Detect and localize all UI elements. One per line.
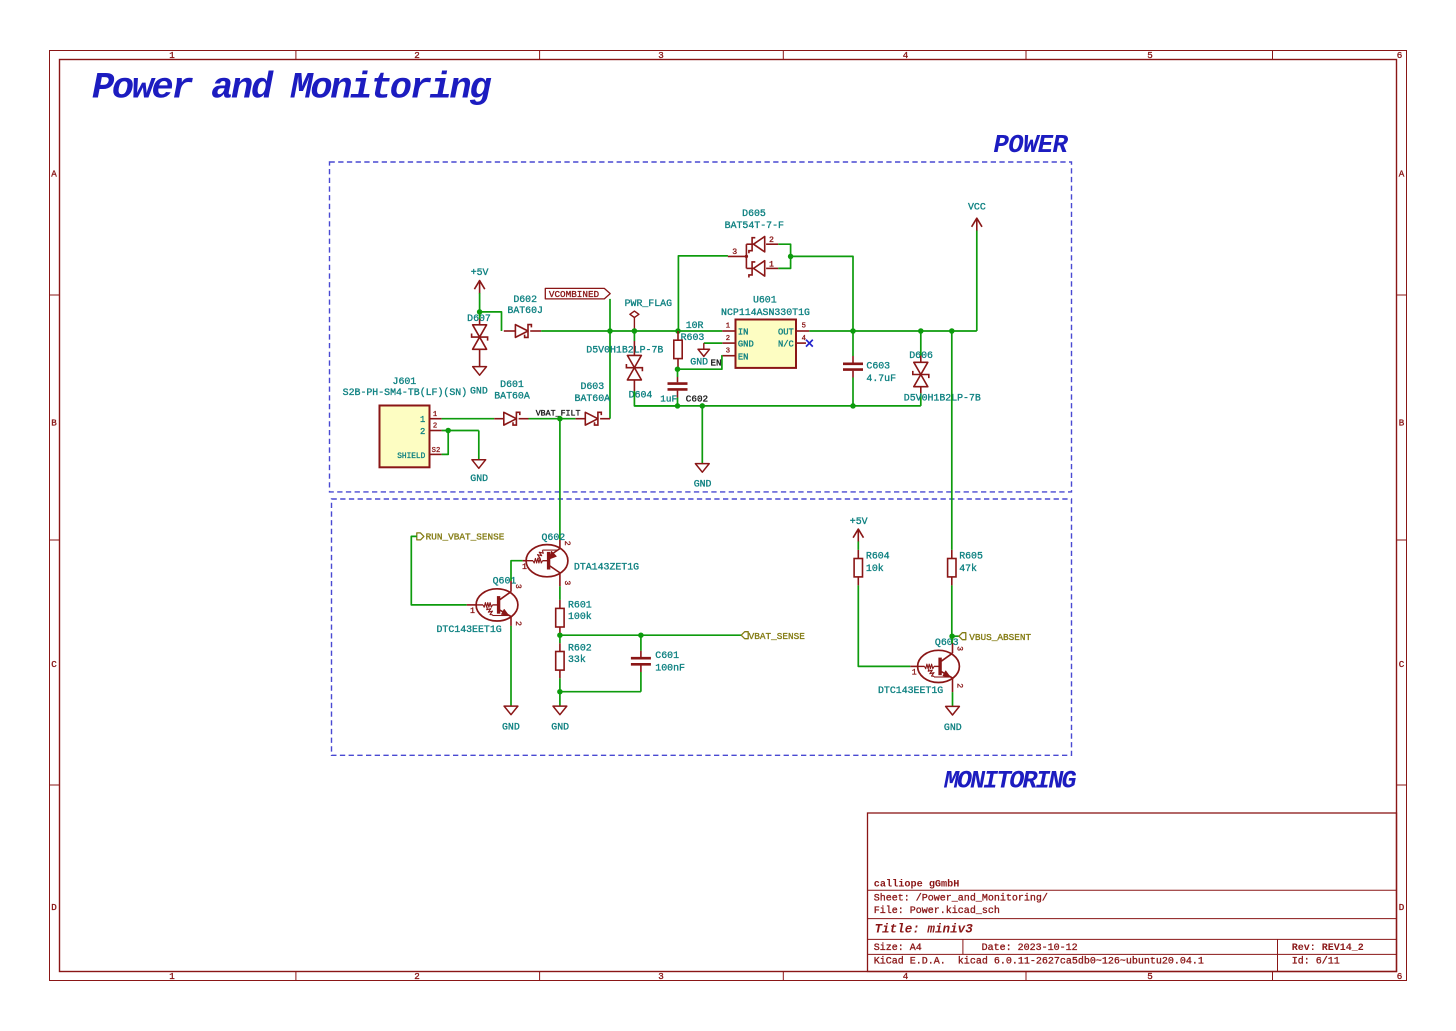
wire OUT to D606 (920, 331, 922, 356)
svg-text:BAT60A: BAT60A (494, 390, 530, 401)
svg-text:A: A (51, 169, 57, 180)
wire junction to D602 anode (480, 312, 502, 331)
svg-text:C601: C601 (655, 650, 679, 661)
svg-text:2: 2 (513, 621, 522, 626)
svg-text:3: 3 (954, 646, 963, 651)
ground at U601 pin 2 (698, 349, 710, 356)
diode D606 TVS symbol (914, 362, 928, 374)
wire junction to D607 (479, 312, 481, 319)
svg-text:2: 2 (420, 427, 425, 437)
svg-text:6: 6 (1397, 971, 1403, 982)
wire pin2 net down to ground (478, 431, 480, 460)
svg-text:1: 1 (169, 971, 175, 982)
node junction OUT / C603 (850, 328, 856, 334)
svg-text:C602: C602 (686, 394, 708, 405)
wire R605 to VBUS_ABSENT junction (951, 585, 953, 636)
node junction R601 / R602 / VBAT_SENSE (557, 632, 563, 638)
svg-text:2: 2 (414, 50, 420, 61)
wire D605 pin1 to output junction (778, 256, 790, 268)
MONITORING dashed group box (332, 499, 1072, 755)
svg-text:1: 1 (169, 50, 175, 61)
ground below J601 (472, 460, 486, 469)
svg-text:Rev: REV14_2: Rev: REV14_2 (1292, 943, 1364, 954)
diode D602 symbol (504, 330, 516, 332)
svg-text:NCP114ASN330T1G: NCP114ASN330T1G (721, 307, 810, 318)
svg-text:C: C (1399, 659, 1405, 670)
node junction D605 outputs (788, 254, 794, 260)
svg-text:calliope gGmbH: calliope gGmbH (874, 878, 960, 890)
wire U601 EN pin to R603 junction (678, 356, 723, 370)
wire Q603 collector to junction (952, 644, 954, 654)
svg-text:N/C: N/C (778, 340, 794, 350)
svg-text:1: 1 (726, 323, 730, 331)
svg-text:BAT60J: BAT60J (507, 305, 543, 316)
ground below D607 (473, 367, 487, 376)
wire VCC riser (976, 231, 978, 332)
wire U601 GND pin to ground (704, 342, 723, 344)
wire junction to D604 (633, 331, 635, 341)
svg-text:U601: U601 (753, 295, 777, 306)
svg-text:5: 5 (802, 323, 806, 331)
svg-text:3: 3 (658, 971, 664, 982)
svg-text:C603: C603 (866, 361, 890, 372)
wire junction down to D603 cathode (609, 331, 611, 419)
capacitor C603 symbol (852, 331, 854, 356)
svg-text:Date: 2023-10-12: Date: 2023-10-12 (982, 943, 1078, 954)
svg-text:DTA143ZET1G: DTA143ZET1G (574, 561, 639, 572)
U601 pin 4 N/C (796, 342, 806, 344)
hierarchical label VBUS_ABSENT (952, 635, 959, 637)
wire R604 to Q603 base (858, 585, 910, 666)
node junction C601 tap (638, 632, 644, 638)
svg-text:1: 1 (769, 260, 774, 269)
svg-text:D603: D603 (580, 381, 604, 392)
wire D605 pin3 branch to IN net (678, 256, 727, 331)
diode D604 TVS symbol (627, 355, 641, 367)
transistor Q603 symbol (910, 665, 917, 667)
global label VCOMBINED (545, 288, 610, 299)
node junction OUT / R605 drop (949, 328, 955, 334)
U601 pin 2 GND (722, 342, 735, 344)
svg-text:VBUS_ABSENT: VBUS_ABSENT (969, 632, 1031, 643)
wire Q603 emitter to ground (952, 678, 954, 692)
op-amp U601 body (736, 320, 797, 368)
wire C601 bottom to R602 junction (560, 691, 641, 693)
svg-text:2: 2 (433, 423, 437, 431)
svg-text:3: 3 (726, 347, 730, 355)
svg-text:3: 3 (562, 580, 571, 585)
svg-text:GND: GND (502, 722, 520, 733)
svg-text:GND: GND (470, 473, 488, 484)
wire D606 to ground bus (920, 387, 922, 394)
svg-text:1: 1 (522, 563, 527, 572)
ground below Q603 (946, 706, 960, 715)
svg-text:RUN_VBAT_SENSE: RUN_VBAT_SENSE (426, 532, 505, 543)
svg-text:BAT60A: BAT60A (575, 393, 611, 404)
wire ground drop (701, 406, 703, 464)
svg-text:3: 3 (513, 584, 522, 589)
wire VBAT_SENSE net (560, 634, 741, 636)
svg-text:S2: S2 (432, 447, 441, 455)
svg-text:GND: GND (694, 478, 712, 489)
hierarchical label RUN_VBAT_SENSE (417, 533, 424, 540)
wire J601 pin2 to ground drop (442, 430, 479, 432)
svg-text:DTC143EET1G: DTC143EET1G (878, 685, 943, 696)
svg-text:GND: GND (470, 386, 488, 397)
resistor R604 symbol (857, 541, 859, 550)
node junction VBAT_FILT (557, 416, 563, 422)
svg-text:10R: 10R (686, 320, 704, 331)
J601 pin 2 (430, 430, 442, 432)
svg-text:GND: GND (738, 340, 754, 350)
svg-text:Sheet: /Power_and_Monitoring/: Sheet: /Power_and_Monitoring/ (874, 893, 1048, 905)
svg-text:D601: D601 (500, 379, 524, 390)
svg-text:1: 1 (433, 411, 437, 419)
diode D603 symbol (576, 418, 586, 420)
svg-text:6: 6 (1397, 50, 1403, 61)
J601 pin 1 (430, 418, 442, 420)
wire D605 junction to OUT net (791, 256, 853, 331)
frame column ticks (295, 51, 297, 60)
svg-text:+5V: +5V (471, 267, 489, 278)
hierarchical label VBAT_SENSE (741, 632, 748, 639)
wire IN net D602 junction to U601 (610, 330, 722, 332)
svg-text:47k: 47k (959, 563, 977, 574)
svg-text:VCOMBINED: VCOMBINED (549, 289, 600, 300)
J601 pin S2 SHIELD (430, 453, 442, 455)
node junction ground drop (700, 403, 706, 409)
diode D607 TVS symbol (473, 325, 487, 337)
svg-text:4: 4 (802, 335, 806, 343)
node junction VBUS_ABSENT / Q603 collector (949, 633, 955, 639)
node junction at +5V / D607 / D602 (477, 309, 483, 315)
svg-text:1: 1 (912, 669, 917, 678)
U601 pin 5 OUT (796, 330, 809, 332)
svg-text:C: C (51, 659, 57, 670)
diode D605 pin 3 wire (678, 255, 727, 257)
diode D601 symbol (494, 418, 504, 420)
svg-text:1: 1 (470, 607, 475, 616)
svg-text:Q602: Q602 (542, 532, 566, 543)
svg-text:Id: 6/11: Id: 6/11 (1292, 956, 1340, 968)
svg-text:Power and Monitoring: Power and Monitoring (92, 68, 492, 110)
diode D605 upper diode (pin 2) (754, 237, 765, 252)
svg-text:5: 5 (1147, 50, 1153, 61)
svg-text:100nF: 100nF (655, 662, 685, 673)
svg-text:D: D (1399, 902, 1405, 913)
svg-text:33k: 33k (568, 654, 586, 665)
svg-text:A: A (1399, 169, 1405, 180)
node junction C603 on ground bus (850, 403, 856, 409)
transistor Q602 symbol (523, 560, 527, 562)
wire OUT net (809, 330, 977, 332)
resistor R601 symbol (559, 600, 561, 609)
U601 pin 1 IN (722, 330, 735, 332)
Q602 collector pin (559, 540, 561, 549)
no-connect cross on pin 4 (806, 340, 813, 347)
svg-text:B: B (1399, 418, 1405, 429)
svg-text:2: 2 (954, 683, 963, 688)
ground below Q601 (504, 706, 518, 715)
svg-text:3: 3 (732, 248, 737, 257)
node junction VCOMBINED / D603 / IN wire (607, 328, 613, 334)
wire D607 to ground (479, 349, 481, 366)
transistor Q601 symbol (467, 604, 476, 606)
svg-text:GND: GND (551, 722, 569, 733)
node junction pin2 / shield (445, 428, 451, 434)
wire D602 cathode to VCOMBINED junction (541, 330, 610, 332)
svg-text:2: 2 (726, 335, 730, 343)
svg-text:+5V: +5V (850, 516, 868, 527)
connector J601 body (380, 406, 430, 468)
svg-text:EN: EN (711, 357, 722, 368)
node junction PWR_FLAG / D604 (632, 328, 638, 334)
node junction R602 / C601 bottom (557, 689, 563, 695)
wire Q601 emitter to ground (510, 617, 512, 626)
wire +5V to junction (479, 293, 481, 312)
svg-text:EN: EN (738, 352, 749, 362)
svg-text:D5V0H1B2LP-7B: D5V0H1B2LP-7B (586, 344, 663, 355)
svg-text:VCC: VCC (968, 201, 986, 212)
wire RUN_VBAT_SENSE to Q601 base (411, 536, 467, 605)
svg-text:D: D (51, 902, 57, 913)
wire R602 to ground (559, 692, 561, 706)
wire Q601 collector to Q602 base (510, 581, 512, 592)
wire D601 to VBAT_FILT junction (529, 418, 576, 420)
power symbol +5V (input) (479, 281, 481, 294)
wire J601 pin1 to D601 (442, 418, 495, 420)
resistor R603 symbol (677, 331, 679, 340)
resistor R602 symbol (559, 635, 561, 643)
resistor R605 symbol (951, 550, 953, 559)
svg-text:VBAT_SENSE: VBAT_SENSE (749, 631, 806, 642)
svg-text:R603: R603 (681, 332, 705, 343)
wire D605 pin2 to output junction (778, 244, 790, 256)
svg-text:R602: R602 (568, 642, 592, 653)
svg-text:File: Power.kicad_sch: File: Power.kicad_sch (874, 905, 1000, 917)
wire D604 to ground bus (633, 380, 635, 391)
svg-text:S2B-PH-SM4-TB(LF)(SN): S2B-PH-SM4-TB(LF)(SN) (343, 387, 467, 398)
diode D605 common anode post (745, 244, 747, 268)
svg-text:D602: D602 (513, 294, 537, 305)
svg-text:1: 1 (420, 415, 425, 425)
svg-text:GND: GND (944, 722, 962, 733)
svg-text:1uF: 1uF (660, 394, 677, 405)
node junction OUT / D606 (918, 328, 924, 334)
capacitor C602 symbol (677, 369, 679, 377)
node junction R603 top / D605 branch (675, 328, 681, 334)
svg-text:B: B (51, 418, 57, 429)
svg-text:2: 2 (562, 541, 571, 546)
capacitor C601 symbol (640, 635, 642, 651)
svg-text:GND: GND (690, 356, 708, 367)
wire J601 shield to pin2 net (442, 431, 449, 455)
ground below R602 (553, 706, 567, 715)
svg-text:3: 3 (658, 50, 664, 61)
svg-text:IN: IN (738, 327, 749, 337)
title block outline (868, 813, 1397, 972)
svg-text:J601: J601 (393, 376, 417, 387)
svg-text:BAT54T-7-F: BAT54T-7-F (725, 220, 784, 231)
wire VCOMBINED to IN net (609, 299, 611, 331)
svg-text:R605: R605 (959, 551, 983, 562)
U601 pin 3 EN (722, 355, 735, 357)
wire Q602 emitter to R601 (559, 573, 561, 586)
svg-text:D605: D605 (742, 208, 766, 219)
svg-text:POWER: POWER (994, 131, 1069, 160)
svg-text:D604: D604 (629, 389, 653, 400)
node junction R603 / EN / C602 (675, 366, 681, 372)
svg-text:2: 2 (414, 971, 420, 982)
ground below bus (695, 464, 709, 473)
svg-text:10k: 10k (866, 563, 884, 574)
svg-text:R601: R601 (568, 599, 592, 610)
svg-text:SHIELD: SHIELD (397, 453, 425, 461)
svg-text:5: 5 (1147, 971, 1153, 982)
wire OUT down to R605 (951, 331, 953, 550)
svg-text:DTC143EET1G: DTC143EET1G (437, 624, 502, 635)
svg-text:Size: A4: Size: A4 (874, 942, 922, 954)
svg-text:100k: 100k (568, 611, 592, 622)
svg-text:4: 4 (903, 50, 909, 61)
svg-text:MONITORING: MONITORING (943, 766, 1076, 795)
svg-text:D5V0H1B2LP-7B: D5V0H1B2LP-7B (904, 393, 981, 404)
node junction C602 on ground bus (675, 403, 681, 409)
svg-text:Title: miniv3: Title: miniv3 (875, 923, 974, 937)
svg-text:4.7uF: 4.7uF (866, 373, 896, 384)
wire ground bus (634, 405, 920, 407)
svg-text:2: 2 (769, 236, 774, 245)
svg-text:PWR_FLAG: PWR_FLAG (625, 298, 672, 309)
diode D605 lower diode (pin 1) (754, 261, 765, 276)
svg-text:OUT: OUT (778, 327, 794, 337)
POWER dashed group box (330, 162, 1072, 492)
svg-text:KiCad E.D.A. kicad 6.0.11-262: KiCad E.D.A. kicad 6.0.11-2627ca5db0~126… (874, 956, 1204, 968)
svg-text:R604: R604 (866, 551, 890, 562)
svg-text:4: 4 (903, 971, 909, 982)
wire VBAT_FILT down to Q602 (559, 419, 561, 540)
